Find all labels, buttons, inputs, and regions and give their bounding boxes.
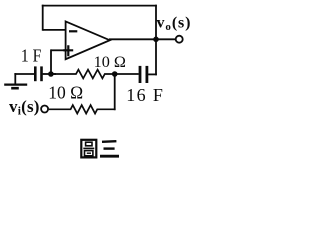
- svg-text:vi(s): vi(s): [9, 97, 40, 118]
- wire: inverting input lead: [43, 29, 66, 31]
- capacitor C1 (1 F): [35, 66, 41, 81]
- wire: left feedback vertical drop: [42, 5, 44, 31]
- wire: ground to capacitor C1: [14, 73, 34, 75]
- wire: top feedback horizontal: [42, 5, 157, 7]
- wire: node B to capacitor C2: [115, 73, 139, 75]
- caption: character 三: [100, 141, 119, 156]
- wire: non-inverting input vertical to node A: [50, 49, 52, 74]
- ground: [4, 73, 27, 88]
- op-amp U1: [63, 21, 110, 59]
- node B junction dot: [112, 71, 118, 77]
- terminal: vo output circle: [176, 36, 183, 43]
- wire: non-inverting input lead: [51, 49, 66, 51]
- svg-text:10 Ω: 10 Ω: [48, 82, 83, 102]
- caption: character 圖: [81, 140, 96, 158]
- wire: capacitor C2 to output vertical: [148, 73, 157, 75]
- wire: output lead: [109, 38, 176, 40]
- resistor R2 (10 ohm upper): [53, 70, 115, 79]
- terminal: vi input circle: [41, 106, 48, 113]
- node A junction dot: [48, 71, 54, 77]
- svg-text:vo(s): vo(s): [157, 15, 192, 33]
- capacitor C2 (16 F): [140, 66, 147, 83]
- resistor R1 (10 ohm lower): [49, 105, 116, 113]
- wire: capacitor C1 to node A: [43, 73, 56, 75]
- svg-text:16 F: 16 F: [126, 85, 164, 105]
- wire: vertical from output junction down to C2: [155, 38, 157, 75]
- wire: node B vertical down to R1: [114, 73, 116, 110]
- svg-text:1 F: 1 F: [21, 46, 41, 66]
- svg-text:10 Ω: 10 Ω: [94, 53, 126, 71]
- node: output junction: [153, 37, 159, 43]
- wire: right feedback vertical: [155, 5, 157, 40]
